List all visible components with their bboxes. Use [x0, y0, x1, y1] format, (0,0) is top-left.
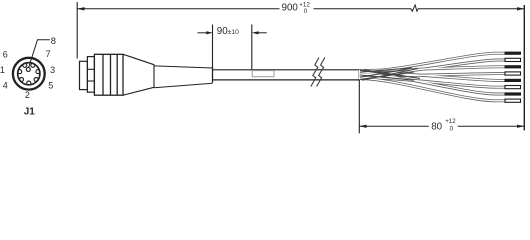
connector face outer circle — [13, 58, 45, 90]
dark bundle strokes at jacket exit — [360, 68, 420, 80]
pin 3 — [36, 70, 40, 74]
wire 7 — [359, 74, 505, 94]
wire 5 — [359, 73, 505, 81]
svg-text:±10: ±10 — [228, 29, 240, 36]
80 dim line left segment — [359, 125, 429, 127]
80 dim left extension line (below jacket end) — [358, 81, 360, 133]
svg-text:1: 1 — [0, 65, 5, 75]
wire 6 — [359, 78, 505, 88]
wire terminal 7 — [505, 92, 522, 95]
pin 7 — [31, 63, 35, 67]
cable break stroke 1 — [311, 58, 319, 87]
svg-text:90: 90 — [217, 26, 228, 37]
connector tip rectangle — [80, 61, 88, 89]
wire 3 — [359, 67, 505, 71]
wire 4 — [359, 74, 505, 76]
knurl line 3 — [116, 54, 118, 95]
900 dim right arrowhead — [517, 7, 524, 10]
pin 1 — [18, 70, 22, 74]
svg-text:0: 0 — [304, 8, 308, 15]
svg-text:2: 2 — [25, 90, 30, 100]
svg-text:6: 6 — [3, 50, 8, 60]
knurled ring — [94, 54, 123, 95]
cable bottom line — [213, 79, 359, 81]
connector mid section — [87, 57, 94, 93]
900 dim left extension line — [76, 2, 78, 59]
svg-text:80: 80 — [431, 121, 442, 132]
900 dim left arrowhead — [77, 7, 84, 10]
connector face inner circle — [18, 63, 40, 85]
cable label marking — [252, 71, 274, 77]
boot end edge — [212, 67, 214, 83]
900 dim line right segment with break — [314, 5, 525, 11]
svg-text:7: 7 — [46, 49, 51, 59]
pin 2 — [27, 81, 31, 85]
cone taper bottom — [123, 87, 154, 95]
boot bottom — [154, 83, 213, 87]
wire 2 — [359, 60, 505, 75]
wire terminal 1 — [505, 52, 522, 55]
wire terminal 6 — [505, 86, 521, 89]
knurl line 1 — [102, 54, 104, 95]
svg-text:4: 4 — [3, 81, 8, 91]
wire terminal 4 — [505, 72, 521, 75]
90 dim left arrow (outside) — [198, 32, 208, 34]
900 dim right extension line — [523, 5, 525, 131]
svg-text:3: 3 — [50, 65, 55, 75]
knurl line 2 — [110, 54, 112, 95]
boot top — [154, 66, 213, 68]
90 dim right extension line — [251, 25, 253, 70]
cable top line — [213, 69, 359, 71]
90 dim right arrow (outside) — [258, 32, 267, 34]
cable break stroke 2 — [317, 58, 325, 87]
svg-text:8: 8 — [51, 35, 56, 46]
wire white cores — [359, 53, 505, 101]
wire terminal 3 — [505, 65, 522, 68]
cone taper top — [123, 54, 154, 64]
mid section division lines — [87, 68, 94, 70]
svg-text:J1: J1 — [24, 107, 36, 118]
80 dim right arrowhead — [517, 125, 524, 128]
pin 6 — [23, 63, 27, 67]
leader line to pin 8 — [29, 40, 50, 68]
wire 8 — [359, 79, 505, 101]
80 dim line right segment — [458, 125, 525, 127]
svg-text:0: 0 — [450, 125, 454, 132]
wire terminal 2 — [505, 58, 521, 61]
svg-text:900: 900 — [282, 3, 299, 14]
cone end edge — [153, 64, 155, 87]
pin 5 — [34, 78, 38, 82]
80 dim left arrowhead — [359, 125, 366, 128]
svg-text:+12: +12 — [445, 118, 456, 125]
svg-text:5: 5 — [48, 81, 53, 91]
wire terminal 5 — [505, 79, 522, 82]
90 dim left extension line — [212, 25, 214, 68]
900 dim line left segment — [77, 8, 279, 10]
pin 8 (center) — [26, 67, 30, 71]
wire terminal 8 — [505, 99, 521, 102]
wire 1 — [359, 53, 505, 71]
pin 4 — [20, 78, 24, 82]
jacket end edge — [358, 69, 360, 81]
